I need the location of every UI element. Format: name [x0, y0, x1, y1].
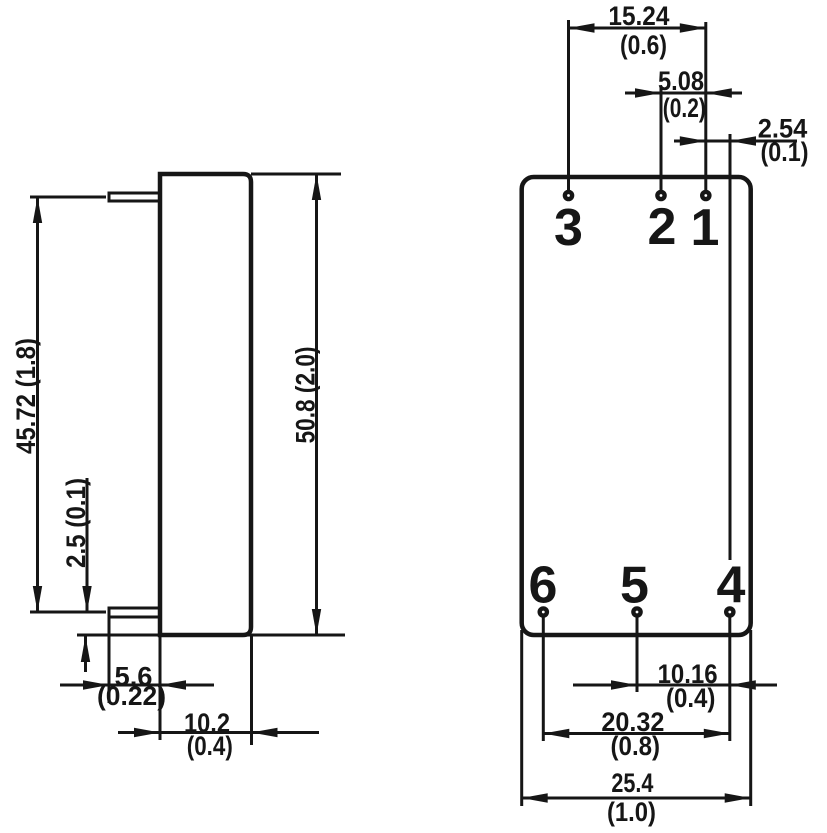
pin 2 dot	[657, 192, 664, 199]
svg-text:2.5 (0.1): 2.5 (0.1)	[61, 478, 91, 568]
package right edge extension line	[749, 630, 752, 806]
dimension 20.32 left arrow	[543, 729, 569, 738]
dimension 2.54 left arrow	[680, 136, 706, 145]
svg-text:(1.0): (1.0)	[607, 797, 656, 827]
dimension 50.8 line	[315, 174, 318, 635]
svg-text:(0.2): (0.2)	[663, 93, 706, 123]
pin 4 extension line lower	[728, 617, 731, 741]
dimension 50.8 bottom arrow	[312, 609, 321, 635]
svg-text:5: 5	[620, 557, 649, 615]
package left edge extension line	[520, 630, 523, 806]
dimension 2.5 line lower	[84, 636, 87, 672]
svg-text:(0.1): (0.1)	[761, 137, 809, 167]
dimension 2.54 line	[674, 140, 797, 143]
pin 3 extension line	[567, 20, 570, 190]
dimension 5.08 right arrow	[706, 88, 732, 97]
dimension 20.32 right arrow	[704, 729, 730, 738]
svg-text:(0.4): (0.4)	[187, 731, 233, 761]
dimension 10.2 line	[118, 731, 319, 734]
dimension 15.24 line	[569, 27, 706, 30]
dimension 2.5 upper arrow	[82, 586, 91, 612]
dimension 25.4 left arrow	[522, 793, 548, 802]
dimension 15.24 left arrow	[569, 23, 595, 32]
svg-text:45.72 (1.8): 45.72 (1.8)	[11, 338, 41, 454]
svg-text:2: 2	[648, 198, 677, 256]
svg-text:25.4: 25.4	[611, 768, 653, 798]
front view package outline	[522, 177, 751, 635]
body right edge extension line	[250, 635, 253, 745]
svg-text:5.08: 5.08	[658, 66, 704, 96]
dimension 45.72 bottom tick	[30, 611, 106, 614]
pin 4 dot	[726, 608, 733, 615]
pin 6 extension line lower	[542, 617, 545, 741]
side view body	[160, 174, 251, 635]
dimension 10.16 left arrow	[611, 680, 637, 689]
svg-text:4: 4	[717, 557, 746, 615]
svg-text:(0.22): (0.22)	[97, 681, 166, 711]
dimension 45.72 top arrow	[33, 197, 42, 223]
side view bottom edge extension	[77, 634, 345, 637]
svg-text:3: 3	[554, 199, 583, 257]
svg-text:(0.6): (0.6)	[620, 30, 667, 60]
dimension 10.16 line	[573, 684, 777, 687]
dimension 5.08 line	[625, 92, 742, 95]
dimension 5.6 line	[60, 684, 214, 687]
dimension 15.24 right arrow	[680, 23, 706, 32]
side view top pin	[109, 193, 160, 201]
pin 6 dot	[540, 608, 547, 615]
dimension 25.4 line	[522, 797, 751, 800]
dimension 2.5 line upper	[86, 478, 89, 612]
side view bottom pin	[109, 608, 160, 617]
svg-text:15.24: 15.24	[608, 1, 669, 31]
dimension 20.32 line	[543, 732, 730, 735]
pin 1 extension line	[704, 22, 707, 190]
body left edge extension line	[159, 635, 162, 740]
pin 5 extension line lower	[636, 617, 639, 692]
dimension 2.5 lower arrow	[81, 636, 90, 662]
svg-text:(0.8): (0.8)	[611, 731, 661, 761]
dimension 10.2 left arrow	[134, 728, 160, 737]
dimension 10.2 right arrow	[252, 728, 278, 737]
dimension 10.16 right arrow	[730, 680, 756, 689]
pin 5 dot	[633, 608, 640, 615]
dimension 45.72 top tick	[30, 196, 106, 199]
dimension 45.72 line	[36, 197, 39, 612]
svg-text:(0.4): (0.4)	[666, 683, 716, 713]
dimension 5.6 right arrow	[160, 680, 186, 689]
pin left end extension line	[108, 617, 111, 703]
dimension 45.72 bottom arrow	[33, 586, 42, 612]
svg-text:1: 1	[691, 199, 720, 257]
dimension 50.8 top arrow	[312, 174, 321, 200]
pin 1 dot	[702, 192, 709, 199]
side view top edge extension	[251, 173, 341, 176]
dimension 2.54 right arrow	[730, 136, 756, 145]
dimension 5.08 left arrow	[635, 88, 661, 97]
pin 4 extension line upper	[729, 134, 732, 560]
dimension 5.6 left arrow	[83, 680, 109, 689]
pin 3 dot	[565, 192, 572, 199]
dimension 25.4 right arrow	[725, 793, 751, 802]
svg-text:6: 6	[529, 557, 558, 615]
pin 2 extension line	[660, 86, 663, 190]
svg-text:50.8 (2.0): 50.8 (2.0)	[291, 347, 321, 444]
